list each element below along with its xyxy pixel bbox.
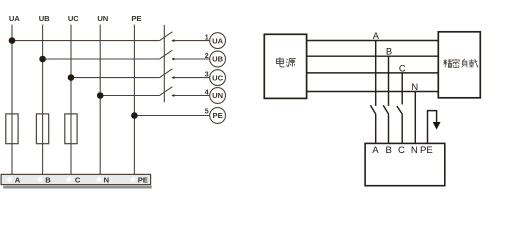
svg-text:A: A (15, 175, 21, 184)
node PE junction (131, 112, 138, 119)
jack UA (210, 33, 226, 49)
wire drop B upper (388, 56, 390, 106)
switch S1 arrow (171, 39, 174, 42)
svg-text:4: 4 (205, 89, 209, 96)
wire PE hook (428, 111, 437, 144)
fuse FU1 (6, 114, 18, 144)
label 精 glyph (443, 59, 452, 67)
svg-text:C: C (399, 62, 406, 73)
switch gang bar (163, 25, 165, 102)
jack UB (210, 51, 226, 67)
wire UB vertical (42, 25, 44, 175)
svg-text:PE: PE (420, 145, 433, 156)
terminal pad A (7, 177, 12, 182)
svg-text:PE: PE (213, 111, 223, 120)
wire B phase (307, 55, 439, 57)
wire row2 UB branch (43, 58, 160, 60)
svg-text:2: 2 (205, 53, 209, 60)
wire A phase (307, 40, 439, 42)
switch QA blade (370, 105, 376, 114)
jack UC (210, 70, 226, 86)
switch S2 arrow (171, 58, 174, 61)
wire row2 to jack (174, 58, 210, 60)
svg-text:B: B (386, 46, 392, 57)
wire row1 UA branch (12, 40, 159, 42)
wire C phase (307, 72, 439, 74)
wire row3 UC branch (71, 77, 159, 79)
wire PE vertical (133, 25, 135, 175)
svg-text:UB: UB (212, 55, 223, 64)
svg-text:UA: UA (212, 36, 223, 45)
svg-text:N: N (104, 175, 109, 184)
label 密 glyph (452, 59, 459, 68)
terminal strip shadow (3, 186, 152, 189)
terminal pad B (38, 177, 43, 182)
PE plug arrow (433, 122, 441, 130)
label 源 (source) glyph (286, 59, 296, 68)
svg-text:UA: UA (9, 14, 20, 23)
wire row3 to jack (174, 77, 210, 79)
jack UN (210, 88, 226, 104)
load box U2 (438, 32, 480, 98)
svg-text:3: 3 (205, 71, 209, 78)
terminal pad C (67, 177, 72, 182)
switch QC blade (397, 106, 403, 114)
label 载 glyph (469, 59, 478, 68)
switch S2 blade (159, 50, 172, 59)
wire row4 UN branch (100, 95, 159, 97)
node UN junction (97, 92, 104, 99)
node UC junction (68, 74, 75, 81)
wire drop C lower (401, 114, 403, 143)
svg-text:UB: UB (39, 14, 50, 23)
switch S1 blade (159, 32, 172, 41)
switch S4 blade (159, 87, 172, 96)
terminal box X1 (365, 143, 445, 185)
wire N neutral (307, 91, 439, 93)
wire row4 to jack (174, 95, 210, 97)
wire row1 to jack (174, 40, 210, 42)
jack PE (210, 108, 226, 124)
wire row5 PE branch (134, 115, 209, 117)
svg-text:PE: PE (138, 175, 148, 184)
wire drop N (414, 92, 416, 144)
svg-text:B: B (385, 145, 391, 156)
switch QB blade (383, 105, 389, 114)
svg-text:PE: PE (131, 14, 141, 23)
svg-text:1: 1 (205, 34, 209, 41)
svg-text:UC: UC (68, 14, 79, 23)
svg-text:A: A (373, 30, 380, 41)
svg-text:UN: UN (212, 91, 223, 100)
svg-text:N: N (411, 81, 418, 92)
svg-text:A: A (372, 145, 379, 156)
wire drop B lower (388, 114, 390, 143)
switch S4 arrow (171, 94, 174, 97)
label 负 glyph (462, 59, 468, 68)
label 电 (power) glyph (277, 57, 285, 67)
wire UC vertical (70, 25, 72, 175)
wire drop C upper (401, 73, 403, 105)
terminal pad N (97, 177, 102, 182)
node UB junction (39, 56, 46, 63)
svg-text:5: 5 (205, 109, 209, 116)
terminal pad PE (131, 177, 136, 182)
svg-text:UN: UN (97, 14, 108, 23)
switch S3 arrow (171, 76, 174, 79)
svg-text:N: N (411, 145, 418, 156)
fuse FU2 (36, 114, 48, 144)
svg-text:UC: UC (212, 73, 223, 82)
switch S3 blade (159, 69, 172, 78)
svg-text:C: C (75, 175, 81, 184)
wire drop A upper (375, 41, 377, 106)
wire drop A lower (375, 114, 377, 143)
wire UN vertical (99, 25, 101, 175)
svg-text:C: C (398, 145, 405, 156)
power source box U1 (264, 34, 306, 98)
terminal strip XT (1, 174, 151, 184)
fuse FU3 (65, 114, 77, 144)
node UA junction (9, 37, 16, 44)
wire UA vertical (11, 25, 13, 175)
svg-text:B: B (45, 175, 51, 184)
